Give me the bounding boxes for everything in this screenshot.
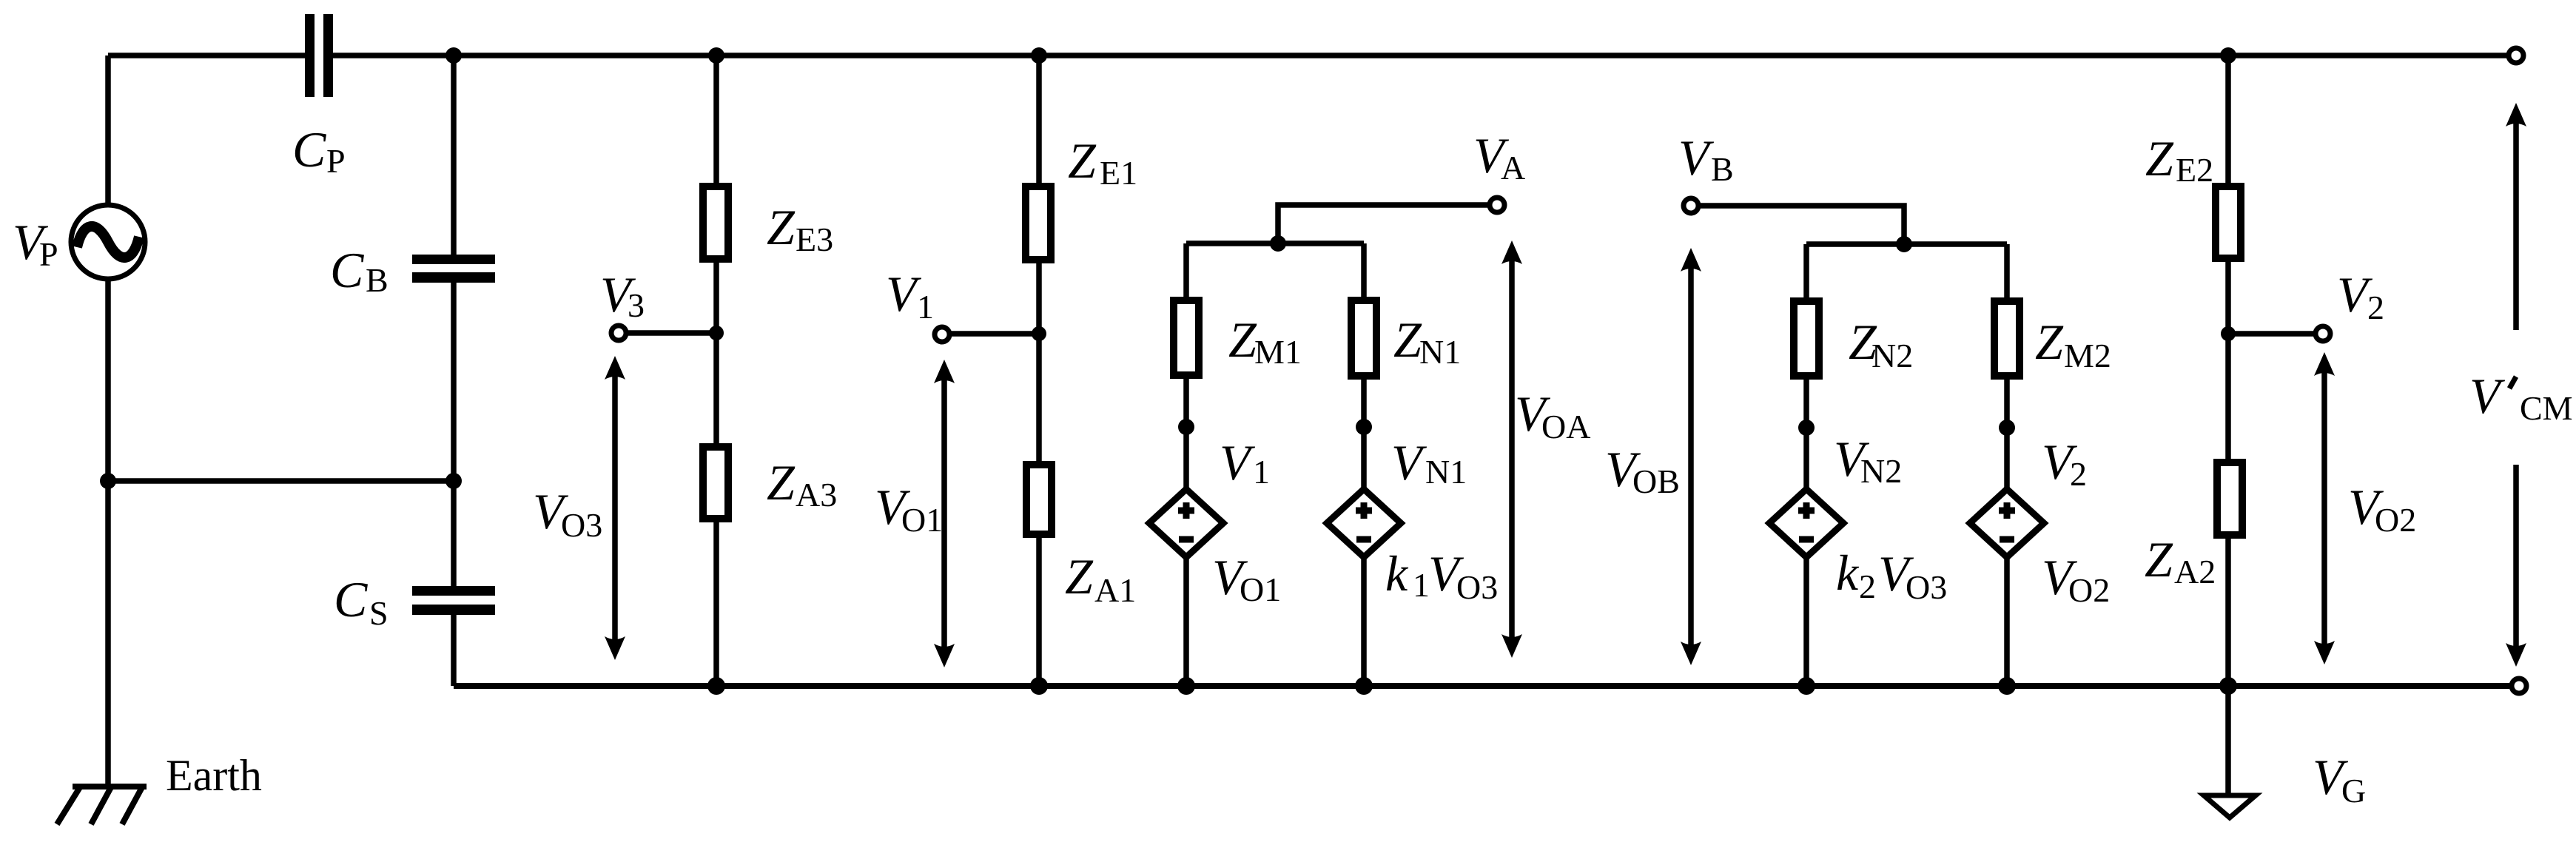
svg-text:N1: N1 xyxy=(1425,453,1467,491)
arrow VO2 xyxy=(2314,352,2335,664)
source N2 diamond xyxy=(1769,489,1843,557)
junction dots bottom wire xyxy=(707,677,725,695)
wire top xyxy=(108,53,2507,58)
svg-text:Z: Z xyxy=(1393,312,1422,368)
svg-text:E3: E3 xyxy=(796,220,833,258)
svg-text:1: 1 xyxy=(1253,453,1270,491)
svg-text:N2: N2 xyxy=(1860,452,1902,490)
svg-text:Earth: Earth xyxy=(166,751,262,800)
svg-text:O1: O1 xyxy=(1240,570,1281,608)
wire V1 stub xyxy=(951,331,1039,337)
resistor ZN2 xyxy=(1794,301,1819,376)
svg-text:O1: O1 xyxy=(901,501,943,539)
junction dots below M/N resistors xyxy=(1178,419,1194,435)
svg-text:2: 2 xyxy=(2367,289,2384,326)
svg-text:OB: OB xyxy=(1632,462,1680,500)
source N1 diamond xyxy=(1327,489,1401,557)
svg-text:C: C xyxy=(292,121,326,178)
svg-text:M2: M2 xyxy=(2064,337,2111,374)
wire VA stub xyxy=(1278,205,1488,243)
resistor ZA2 xyxy=(2217,462,2242,535)
svg-text:Z: Z xyxy=(2035,314,2064,370)
resistor ZE1 xyxy=(1026,186,1051,260)
terminal bottom right xyxy=(2512,679,2526,693)
svg-text:E1: E1 xyxy=(1100,154,1137,192)
svg-text:N1: N1 xyxy=(1419,333,1461,371)
svg-text:k: k xyxy=(1836,545,1860,601)
wire ZE3/ZA3 branch xyxy=(713,55,719,686)
svg-text:2: 2 xyxy=(2070,455,2087,493)
capacitor CB xyxy=(412,255,495,264)
svg-text:A3: A3 xyxy=(796,476,837,514)
svg-text:3: 3 xyxy=(628,286,645,324)
resistor ZE3 xyxy=(703,186,728,259)
svg-text:Z: Z xyxy=(767,199,796,255)
svg-text:1: 1 xyxy=(1413,566,1430,604)
svg-text:Z: Z xyxy=(1065,548,1094,605)
ground VG xyxy=(2204,795,2256,818)
svg-text:Z: Z xyxy=(1228,312,1257,368)
svg-text:C: C xyxy=(330,242,364,298)
earth xyxy=(57,787,147,824)
svg-text:G: G xyxy=(2341,772,2366,809)
wire CB/CS branch xyxy=(451,55,457,686)
svg-text:B: B xyxy=(1711,150,1734,188)
svg-text:A2: A2 xyxy=(2174,553,2216,590)
svg-text:P: P xyxy=(39,235,58,273)
svg-text:Z: Z xyxy=(2145,130,2174,186)
svg-text:S: S xyxy=(369,594,389,632)
svg-text:k: k xyxy=(1385,545,1409,602)
wire ZM2 branch xyxy=(2004,244,2010,686)
source M2 diamond xyxy=(1970,489,2044,557)
svg-text:1: 1 xyxy=(917,288,934,326)
resistor ZA1 xyxy=(1026,465,1052,534)
source VP xyxy=(71,205,145,279)
resistor ZA3 xyxy=(703,447,728,519)
svg-text:Z: Z xyxy=(2145,531,2173,588)
svg-text:O3: O3 xyxy=(1456,568,1498,606)
wire ground stem xyxy=(2225,686,2231,793)
svg-text:A: A xyxy=(1501,149,1525,186)
source E1 diamond xyxy=(1149,489,1223,557)
arrow VOA xyxy=(1501,240,1522,658)
junction dots VA/VB corners xyxy=(1270,235,1286,252)
arrow VOB xyxy=(1681,248,1701,665)
svg-text:N2: N2 xyxy=(1872,337,1913,374)
resistor ZN1 xyxy=(1351,300,1376,376)
svg-text:2: 2 xyxy=(1859,568,1876,605)
capacitor CS xyxy=(412,586,495,596)
terminal top right xyxy=(2509,48,2523,63)
junction dots V stubs xyxy=(709,326,724,340)
svg-text:CM: CM xyxy=(2520,389,2573,427)
capacitor CP xyxy=(305,14,315,97)
svg-text:OA: OA xyxy=(1541,408,1590,445)
junction dots top wire xyxy=(445,47,462,64)
wire left vertical xyxy=(105,55,111,786)
arrow VO1 xyxy=(934,360,955,667)
terminal V1 xyxy=(935,327,949,342)
terminal V2 xyxy=(2316,326,2330,341)
wire bottom xyxy=(454,683,2509,689)
svg-text:E2: E2 xyxy=(2176,151,2213,189)
svg-text:Z: Z xyxy=(767,454,796,511)
wire ZN2 branch xyxy=(1803,244,1809,686)
terminal V3 xyxy=(611,326,626,340)
wire ZE1/ZA1 branch xyxy=(1036,55,1042,686)
terminal VA xyxy=(1490,198,1504,212)
svg-text:B: B xyxy=(366,261,389,299)
resistor ZM1 xyxy=(1174,300,1199,375)
arrow VO3 xyxy=(605,356,625,660)
wire middle horizontal xyxy=(108,478,454,484)
svg-text:C: C xyxy=(334,571,368,627)
svg-text:O3: O3 xyxy=(561,506,602,544)
wire VB stub xyxy=(1700,206,1904,244)
arrow VCM xyxy=(2506,103,2526,667)
wire ZM1 branch xyxy=(1183,243,1189,686)
wire ZN1 branch xyxy=(1361,243,1367,686)
resistor ZE2 xyxy=(2216,186,2241,258)
svg-text:O2: O2 xyxy=(2375,501,2416,539)
terminal VB xyxy=(1684,198,1698,213)
wire V3 stub xyxy=(628,330,716,336)
resistor ZM2 xyxy=(1994,301,2020,376)
wire ZE2/ZA2 branch xyxy=(2225,55,2231,686)
wire bar ZM1-ZN1 xyxy=(1186,240,1364,246)
svg-text:O3: O3 xyxy=(1906,568,1947,606)
svg-text:Z: Z xyxy=(1068,132,1097,189)
svg-text:M1: M1 xyxy=(1254,333,1302,371)
svg-text:A1: A1 xyxy=(1094,571,1136,609)
wire bar ZN2-ZM2 xyxy=(1806,241,2007,247)
svg-text:P: P xyxy=(326,142,346,180)
svg-text:O2: O2 xyxy=(2068,571,2110,609)
wire V2 stub xyxy=(2228,331,2314,337)
junction dots middle wire xyxy=(100,473,116,489)
